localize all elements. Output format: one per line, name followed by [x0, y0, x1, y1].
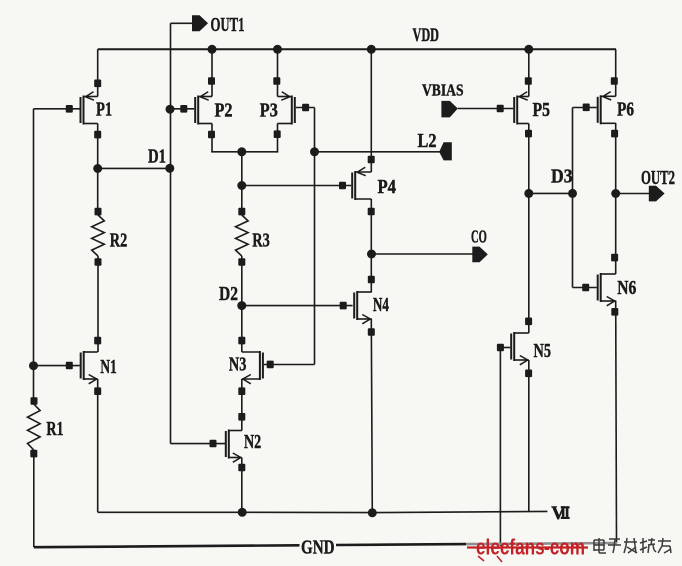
svg-text:N3: N3 [229, 355, 247, 376]
svg-text:N5: N5 [534, 341, 552, 362]
svg-text:N1: N1 [100, 357, 117, 378]
svg-text:R3: R3 [252, 231, 270, 252]
svg-text:VDD: VDD [413, 26, 440, 46]
svg-text:OUT2: OUT2 [641, 167, 675, 189]
svg-text:D1: D1 [148, 147, 166, 168]
svg-text:CO: CO [471, 226, 487, 246]
svg-text:D3: D3 [551, 166, 573, 187]
svg-text:N6: N6 [617, 278, 636, 299]
svg-text:P1: P1 [96, 100, 112, 121]
svg-text:P5: P5 [533, 100, 551, 121]
svg-text:P3: P3 [260, 101, 278, 122]
svg-text:VBIAS: VBIAS [422, 80, 464, 99]
svg-text:GND: GND [301, 537, 335, 559]
svg-text:N4: N4 [373, 295, 389, 316]
svg-text:P4: P4 [378, 177, 397, 198]
svg-text:L2: L2 [418, 130, 437, 152]
svg-text:N2: N2 [244, 432, 261, 453]
svg-text:R1: R1 [46, 419, 63, 440]
svg-text:P2: P2 [215, 101, 233, 122]
svg-text:OUT1: OUT1 [211, 14, 245, 36]
svg-text:P6: P6 [617, 100, 634, 121]
svg-text:R2: R2 [110, 231, 128, 252]
svg-text:D2: D2 [219, 284, 238, 305]
